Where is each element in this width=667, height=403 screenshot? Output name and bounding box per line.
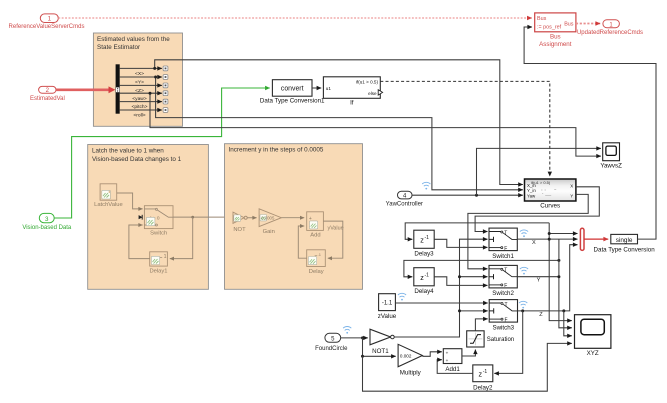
wire Yaw branch to YawvsZ in1 (477, 148, 601, 195)
wire control to Switch2 (460, 276, 488, 278)
svg-text:F: F (505, 317, 508, 323)
bus selector input port marker (116, 87, 120, 92)
NOT1 block (370, 329, 394, 355)
svg-text:Delay1: Delay1 (149, 269, 167, 275)
svg-text:-1.1: -1.1 (382, 301, 393, 307)
svg-text:Bus: Bus (564, 21, 574, 27)
svg-text:LatchValue: LatchValue (94, 202, 123, 208)
wire Z node down into Delay2 (input on right) (494, 311, 522, 374)
wire Add out to Delay input (323, 221, 342, 258)
annotation box: Latch the value to 1 when Vision-based Data changes to 1 (88, 145, 209, 290)
svg-text:Delay4: Delay4 (414, 288, 434, 295)
node Multiply tap (361, 355, 364, 358)
Saturation block (467, 331, 514, 347)
node Switch1 out junction (548, 238, 551, 241)
wire Curves Y out to Switch2 T (468, 194, 588, 268)
svg-text:Latch the value to 1 when: Latch the value to 1 when (92, 148, 164, 155)
wire Z down to XYZ in3 (564, 311, 572, 336)
wire feedback from X node to Delay3 input (405, 223, 549, 239)
outport 1 UpdatedReferenceCmds (577, 20, 643, 36)
LatchValue block (94, 184, 123, 208)
svg-text:Add1: Add1 (445, 366, 460, 373)
terminator block 2 (163, 75, 168, 80)
wire Delay3 out to Switch1 F (434, 239, 487, 247)
wire bus signal Y (120, 76, 162, 78)
svg-text:YawvsZ: YawvsZ (600, 163, 622, 170)
Switch3 block (489, 300, 517, 332)
svg-text:ReferenceValueServerCmds: ReferenceValueServerCmds (9, 24, 85, 30)
svg-text:Switch2: Switch2 (492, 290, 514, 297)
svg-text:UpdatedReferenceCmds: UpdatedReferenceCmds (577, 30, 643, 36)
wire NOT1 out up the control chain (394, 239, 487, 337)
wire control to Switch3 (460, 310, 488, 312)
svg-text:EstimatedVal: EstimatedVal (30, 96, 65, 102)
svg-text:Switch3: Switch3 (492, 324, 514, 331)
YawvsZ scope block (600, 143, 622, 170)
svg-text:+: + (446, 358, 449, 363)
inport 3 Vision-based Data (22, 213, 72, 231)
NOT block (increment box) (233, 212, 247, 233)
svg-text:NOT: NOT (233, 227, 246, 233)
node control Switch3 (458, 309, 461, 312)
wire: thick red from EstimatedVal to bus selector (56, 89, 110, 92)
Delay3 block (414, 230, 434, 258)
svg-text:X: X (532, 240, 536, 246)
svg-text:Y: Y (570, 194, 573, 199)
Delay4 block (414, 268, 434, 296)
terminator block 1 (163, 66, 168, 71)
svg-text:Delay: Delay (309, 269, 324, 275)
wireless icon near Switch2 (520, 267, 528, 274)
inport 1 ReferenceValueServerCmds (9, 14, 85, 30)
svg-text:single: single (616, 237, 633, 244)
wire Y vertical: mux in2 top, down to XYZ in2 (559, 239, 572, 328)
wire: dashed red bus from port 1 to Bus Assignment (58, 17, 532, 19)
terminator block 4 (163, 91, 168, 96)
node Z to Delay2 tap (521, 309, 524, 312)
svg-text:<yaw>: <yaw> (132, 96, 147, 102)
svg-text:convert: convert (281, 85, 304, 92)
svg-text:+: + (446, 350, 449, 355)
wireless icon near Switch1 (520, 230, 528, 237)
svg-text:Switch: Switch (150, 231, 167, 237)
svg-text:Assignment: Assignment (539, 41, 572, 48)
wire Switch1 out to mux in2 (517, 238, 577, 240)
svg-text:Multiply: Multiply (400, 369, 422, 376)
unconnected control port glyph of Switch (141, 215, 143, 220)
wire Multiply to Add1 in1 (422, 352, 441, 357)
node control Switch2 (458, 275, 461, 278)
wire NOT to Gain (247, 217, 256, 219)
svg-text:XYZ: XYZ (587, 350, 599, 357)
node on <Y> line (154, 76, 157, 79)
svg-text:0.002: 0.002 (400, 354, 412, 359)
Add1 block (443, 349, 462, 374)
svg-text:Estimated values from the: Estimated values from the (97, 36, 170, 43)
wire FoundCircle branch to Multiply and XYZ in4 (363, 338, 396, 356)
svg-text:Bus: Bus (550, 34, 561, 41)
node Z to XYZ tap (562, 309, 565, 312)
wire Switch out down to Delay1 input (170, 217, 193, 259)
wireless icon near FoundCircle (343, 327, 351, 334)
XYZ scope block (575, 315, 611, 357)
svg-text:NOT1: NOT1 (372, 348, 389, 355)
wire FoundCircle to NOT1 (341, 337, 368, 339)
node on Yaw wire (475, 194, 478, 197)
svg-text:Saturation: Saturation (487, 337, 514, 343)
wire bus signal Z (120, 84, 162, 86)
wire: dashed if-action from If to Curves trigger (380, 81, 550, 176)
svg-text:F: F (504, 246, 507, 252)
svg-text:Delay3: Delay3 (414, 251, 434, 258)
svg-text:<X>: <X> (135, 71, 144, 77)
svg-text:Vision-based Data: Vision-based Data (22, 225, 72, 231)
svg-text:Vision-based Data changes to 1: Vision-based Data changes to 1 (92, 156, 182, 163)
bus selector bar (116, 64, 120, 113)
zValue constant block (378, 294, 397, 321)
wire feedback from Y node to Delay4 input (404, 260, 559, 276)
svg-text:Bus: Bus (537, 16, 547, 22)
svg-text:3: 3 (45, 216, 49, 223)
Switch2 block (489, 265, 517, 297)
Multiply gain block (398, 344, 422, 376)
wire Delay1 out to Switch F (129, 225, 150, 259)
svg-text:YawController: YawController (386, 202, 423, 208)
svg-text:Yaw: Yaw (527, 193, 536, 198)
wire to mux in1 (549, 233, 577, 235)
wire single out up to Bus Assignment in2 (524, 27, 656, 239)
If block U1 (323, 77, 382, 107)
inport 2 EstimatedVal (30, 86, 65, 102)
node on <yaw> line (149, 92, 152, 95)
svg-text:Increment y in the steps of 0.: Increment y in the steps of 0.0005 (229, 146, 324, 153)
wire bus signal pitch (120, 101, 162, 103)
wire zValue to Switch3 T (395, 302, 487, 304)
svg-text:-1: -1 (425, 272, 430, 278)
wire: <Y> branch to Curves Y_in (156, 77, 523, 190)
wire: <X> branch to Curves X_in (155, 60, 523, 185)
wire Switch2 out to Y vertical (517, 276, 559, 278)
Add block (307, 212, 324, 239)
wire Gain to Add (281, 217, 304, 219)
wireless icon near zValue (398, 293, 406, 300)
svg-text:zValue: zValue (378, 313, 397, 320)
svg-text:else: else (368, 91, 377, 96)
Delay2 block (473, 365, 493, 391)
svg-text:u1: u1 (326, 86, 332, 91)
wire X vertical: feedback top, mux in1, down to XYZ in1 (549, 223, 572, 321)
svg-text:Y_in: Y_in (527, 188, 536, 193)
svg-text:Add: Add (310, 232, 320, 238)
wireless icon near YawController (422, 182, 430, 189)
svg-text:FoundCircle: FoundCircle (315, 346, 348, 352)
node FoundCircle branch (361, 336, 364, 339)
node on <X> line (153, 67, 156, 70)
svg-text:1: 1 (164, 254, 167, 260)
node mux in1 tap (548, 232, 551, 235)
wireless icon near Switch3 (519, 301, 527, 308)
terminator block 3 (163, 83, 168, 88)
wire YawController to Curves Yaw (412, 194, 523, 196)
Data Type Conversion1 block (260, 80, 325, 105)
terminator block 5 (163, 99, 168, 104)
wire: green from port 3 up to Data Type Conversion1 (54, 88, 270, 218)
svg-text:<roll>: <roll> (133, 113, 145, 119)
wire Switch3 out Z to mux in3 (518, 245, 578, 311)
svg-text:State Estimator: State Estimator (97, 44, 140, 51)
inport 5 FoundCircle (315, 333, 348, 352)
svg-text:Switch1: Switch1 (492, 253, 514, 260)
svg-text:Y: Y (537, 278, 541, 284)
svg-text:F: F (504, 283, 507, 289)
svg-text:T: T (505, 302, 508, 308)
Gain block 0.0005 (259, 209, 281, 235)
Delay block (increment box) (307, 250, 326, 275)
svg-text:0.0005: 0.0005 (261, 216, 275, 221)
annotation box: Estimated values from the State Estimator (93, 33, 182, 126)
svg-text:yValue: yValue (328, 225, 344, 231)
mux (bus creator, red) (580, 228, 584, 250)
svg-text:Data Type Conversion: Data Type Conversion (594, 246, 656, 253)
node feedback tap on Y vertical (557, 259, 560, 262)
Switch1 block (489, 228, 517, 260)
wire Delay out to Add in2 (298, 226, 306, 258)
wire bus signal yaw (120, 92, 162, 94)
svg-text:1: 1 (48, 16, 52, 23)
wire bus signal roll (120, 109, 162, 111)
wire Switch out to NOT (crosses into increment box) (173, 216, 231, 218)
wire red mux to single (584, 238, 608, 240)
wire Delay2 out to Add1 in2 (437, 360, 473, 374)
inport 4 YawController (386, 191, 423, 207)
svg-text:Curves: Curves (540, 202, 560, 209)
wire Bus Assignment out (red dashed) (576, 23, 600, 25)
Delay1 block (149, 252, 167, 275)
svg-text:T: T (504, 268, 507, 274)
svg-text:<Z>: <Z> (135, 88, 144, 94)
Curves if-action subsystem (525, 179, 576, 209)
wire Curves X out to Switch1 T (475, 187, 599, 232)
wire LatchValue to Switch T (117, 193, 143, 209)
svg-text:Data Type Conversion1: Data Type Conversion1 (260, 98, 325, 105)
wire bus signal X (120, 67, 162, 69)
Switch block (latch) (144, 206, 173, 237)
node on Switch out (191, 216, 194, 219)
node Switch2 out junction (557, 275, 560, 278)
wire Delay4 out to Switch2 F (434, 277, 487, 286)
wire down to bottom and over to XYZ in4 (363, 343, 572, 391)
Bus Assignment block (535, 13, 576, 48)
wire Saturation out to Switch3 F (475, 319, 487, 331)
wire convert to If (312, 87, 321, 89)
svg-text:Z: Z (539, 312, 543, 318)
wire Add1 out to Saturation (462, 350, 476, 357)
annotation box: Increment y in the steps of 0.0005 (225, 144, 363, 290)
wire: <yaw> branch to YawvsZ scope (150, 93, 601, 156)
svg-text:-1: -1 (425, 235, 430, 241)
svg-text:<Y>: <Y> (135, 80, 144, 86)
svg-text::= pos_ref: := pos_ref (537, 24, 562, 30)
Data Type Conversion block single (594, 234, 656, 253)
svg-text:If: If (350, 100, 354, 107)
svg-text:-1: -1 (483, 369, 488, 375)
svg-text:T: T (504, 230, 507, 236)
svg-text:Delay2: Delay2 (473, 384, 493, 391)
svg-text:if(u1 > 0.5): if(u1 > 0.5) (356, 80, 379, 85)
terminator block 6 (163, 108, 168, 113)
svg-text:X: X (570, 183, 573, 188)
svg-text:Gain: Gain (263, 229, 275, 235)
svg-text:<pitch>: <pitch> (131, 104, 147, 110)
